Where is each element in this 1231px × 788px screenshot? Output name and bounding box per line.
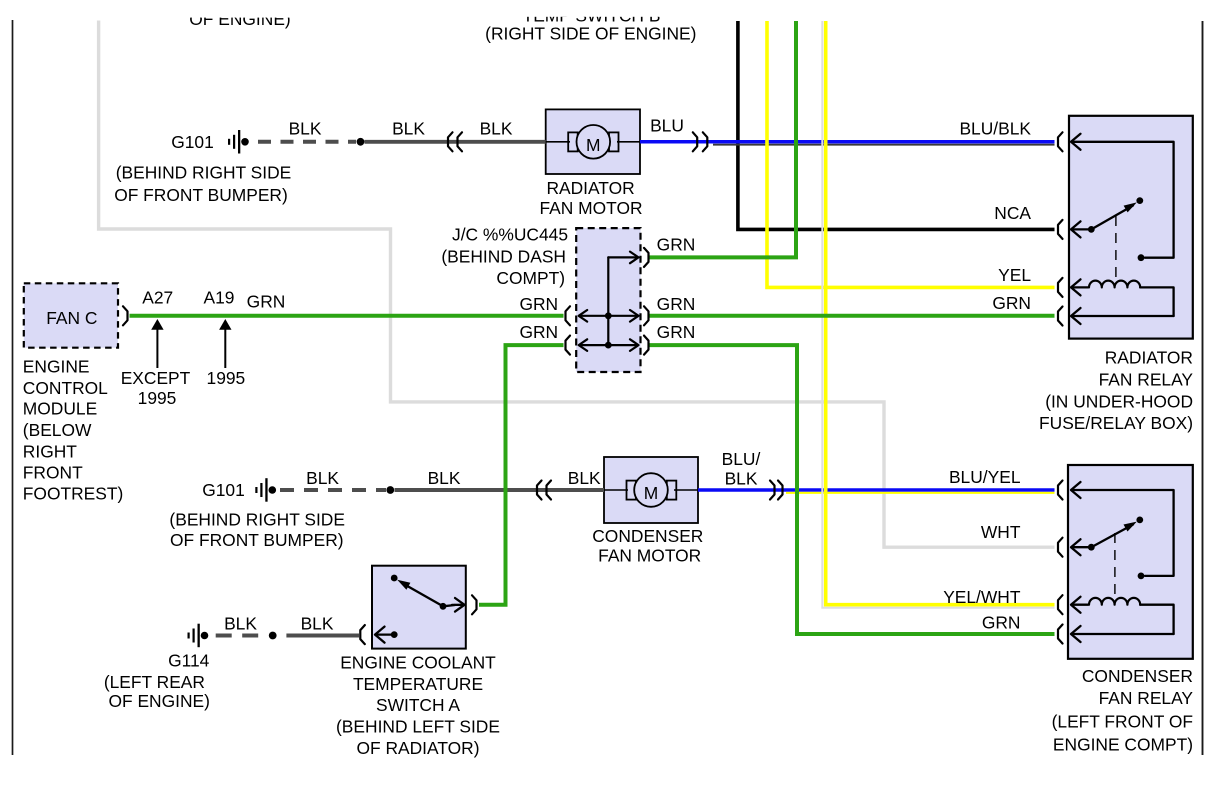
- wire BLU/BLK black stripe: [713, 144, 1055, 146]
- connector J/C top right: [644, 248, 649, 267]
- svg-text:CONTROL: CONTROL: [23, 378, 108, 398]
- svg-text:CONDENSER: CONDENSER: [1082, 666, 1193, 686]
- actuation dashed line: [1115, 216, 1117, 277]
- condenser relay internals: [1071, 482, 1174, 642]
- svg-text:FUSE/RELAY BOX): FUSE/RELAY BOX): [1039, 413, 1193, 433]
- engine coolant temperature switch A box: [372, 566, 466, 649]
- svg-text:G101: G101: [202, 480, 245, 500]
- pin2 arrow: [1071, 221, 1081, 237]
- connector radiator relay pin4: [1058, 307, 1063, 326]
- svg-text:1995: 1995: [207, 368, 246, 388]
- white clip band over top-middle text: [450, 0, 730, 17]
- svg-text:FAN MOTOR: FAN MOTOR: [539, 198, 642, 218]
- svg-text:BLK: BLK: [306, 468, 339, 488]
- wire NCA (black) from top to radiator fan relay pin 2: [738, 21, 1055, 229]
- connector radiator relay pin1: [1058, 132, 1063, 151]
- switch blade: [1091, 206, 1133, 230]
- connector condenser relay pin3: [1058, 595, 1063, 614]
- svg-text:(BEHIND RIGHT SIDE: (BEHIND RIGHT SIDE: [169, 510, 345, 530]
- junction connector J/C %%UC445 box (dashed): [576, 228, 640, 372]
- svg-text:(BEHIND RIGHT SIDE: (BEHIND RIGHT SIDE: [116, 163, 292, 183]
- pin3 arrow and coil: [1071, 597, 1081, 613]
- svg-text:TEMPERATURE: TEMPERATURE: [353, 674, 483, 694]
- svg-text:OF FRONT BUMPER): OF FRONT BUMPER): [170, 530, 344, 550]
- J/C internal arrows: [579, 252, 639, 351]
- connector J/C bottom right: [644, 336, 649, 355]
- svg-text:BLK: BLK: [392, 119, 425, 139]
- connector (( condenser motor BLK: [537, 481, 542, 500]
- svg-text:GRN: GRN: [982, 613, 1021, 633]
- condenser fan motor box: [604, 457, 698, 523]
- middle row arrows: [581, 315, 638, 317]
- svg-text:BLU/BLK: BLU/BLK: [959, 119, 1031, 139]
- arrow EXCEPT 1995 to A27: [151, 319, 163, 368]
- arrow 1995 to A19: [219, 319, 231, 368]
- wire BLK solid to coolant temperature switch A: [286, 634, 359, 638]
- svg-text:(IN UNDER-HOOD: (IN UNDER-HOOD: [1045, 391, 1193, 411]
- svg-text:M: M: [586, 135, 601, 155]
- svg-text:BLK: BLK: [725, 469, 758, 489]
- wire BLK solid to condenser fan motor: [395, 488, 605, 492]
- top output arrow: [608, 256, 637, 258]
- wire BLK dashed G101 to splice (row 1): [258, 140, 356, 144]
- splice dot row 1: [357, 138, 365, 146]
- svg-text:NCA: NCA: [994, 203, 1031, 223]
- connector )) radiator motor BLU: [693, 132, 697, 151]
- svg-text:M: M: [644, 483, 659, 503]
- svg-text:FOOTREST): FOOTREST): [23, 484, 123, 504]
- svg-text:(BEHIND DASH: (BEHIND DASH: [441, 246, 566, 266]
- ground pin arrow: [375, 627, 385, 643]
- actuation dashed line: [1114, 533, 1116, 594]
- ground G101 (condenser fan motor row): [255, 478, 276, 502]
- switch blade: [1091, 525, 1133, 548]
- svg-text:FAN RELAY: FAN RELAY: [1099, 688, 1194, 708]
- svg-text:BLK: BLK: [568, 468, 601, 488]
- ground G101 (radiator fan motor row): [228, 130, 249, 154]
- wire GRN ECM FAN C to J/C: [130, 314, 564, 318]
- svg-text:FRONT: FRONT: [23, 462, 83, 482]
- svg-text:BLK: BLK: [480, 119, 513, 139]
- svg-text:GRN: GRN: [657, 294, 696, 314]
- coolant temperature switch A internals: [375, 580, 465, 643]
- svg-text:OF FRONT BUMPER): OF FRONT BUMPER): [114, 185, 288, 205]
- output arrow to connector: [443, 605, 455, 606]
- connector condenser relay pin1: [1058, 481, 1063, 500]
- svg-text:ENGINE COOLANT: ENGINE COOLANT: [340, 653, 496, 673]
- connector at ECM FAN C output: [123, 306, 128, 325]
- radiator fan motor box: [546, 109, 640, 174]
- svg-text:OF RADIATOR): OF RADIATOR): [356, 738, 479, 758]
- svg-text:ENGINE: ENGINE: [23, 357, 90, 377]
- ground G114: [188, 624, 209, 648]
- svg-text:BLU/YEL: BLU/YEL: [949, 467, 1021, 487]
- splice dot G114 row: [269, 632, 277, 640]
- svg-text:BLU: BLU: [650, 116, 684, 136]
- svg-text:BLU/: BLU/: [722, 449, 761, 469]
- wire BLK dashed G114 to splice: [216, 634, 262, 638]
- svg-text:FAN C: FAN C: [46, 308, 97, 328]
- svg-text:YEL/WHT: YEL/WHT: [943, 587, 1021, 607]
- svg-text:G101: G101: [171, 132, 214, 152]
- svg-text:G114: G114: [168, 650, 210, 670]
- svg-text:MODULE: MODULE: [23, 399, 97, 419]
- svg-text:(RIGHT SIDE OF ENGINE): (RIGHT SIDE OF ENGINE): [485, 24, 696, 44]
- connector switch A output: [472, 595, 477, 614]
- condenser fan relay box: [1068, 465, 1193, 659]
- svg-text:GRN: GRN: [657, 234, 696, 254]
- page border right: [1202, 21, 1204, 755]
- wire BLU/YEL yellow stripe: [786, 492, 1055, 494]
- connector J/C bottom left: [566, 336, 571, 355]
- svg-text:(LEFT REAR: (LEFT REAR: [104, 672, 205, 692]
- wire GRN coolant temperature switch A to J/C: [479, 345, 564, 605]
- wire BLK solid to radiator fan motor: [365, 140, 546, 144]
- svg-text:WHT: WHT: [981, 522, 1021, 542]
- wire YEL/WHT white stripe: [822, 21, 1054, 608]
- pin4 arrow and internal wire: [1071, 308, 1081, 324]
- pin3 arrow and coil: [1071, 279, 1081, 295]
- svg-text:FAN MOTOR: FAN MOTOR: [598, 546, 701, 566]
- svg-text:BLK: BLK: [224, 613, 257, 633]
- wire YEL from top to radiator fan relay pin 3: [767, 21, 1055, 287]
- connector switch A ground pin: [360, 625, 365, 644]
- J/C bus dots: [605, 312, 612, 319]
- svg-text:YEL: YEL: [998, 265, 1031, 285]
- pin1 arrow and internal wire: [1071, 482, 1081, 498]
- svg-text:A27: A27: [142, 288, 173, 308]
- svg-text:FAN RELAY: FAN RELAY: [1099, 370, 1194, 390]
- condenser fan motor symbol: [604, 473, 698, 507]
- svg-text:A19: A19: [204, 288, 235, 308]
- wire BLU condenser fan motor to connector: [698, 488, 1055, 492]
- svg-text:OF ENGINE): OF ENGINE): [108, 691, 209, 711]
- splice dot row 2: [386, 486, 394, 494]
- svg-text:J/C %%UC445: J/C %%UC445: [452, 225, 568, 245]
- svg-text:BLK: BLK: [428, 468, 461, 488]
- svg-text:GRN: GRN: [519, 322, 558, 342]
- wire YEL/WHT from top to condenser fan relay pin 3: [826, 21, 1055, 605]
- wire GRN J/C top output going up: [648, 21, 796, 257]
- svg-text:BLK: BLK: [289, 119, 322, 139]
- svg-text:RIGHT: RIGHT: [23, 441, 77, 461]
- svg-text:RADIATOR: RADIATOR: [1105, 348, 1193, 368]
- pin4 arrow and internal wire: [1071, 626, 1081, 642]
- radiator fan motor symbol: [546, 125, 640, 159]
- svg-text:(BELOW: (BELOW: [23, 420, 92, 440]
- wire GRN J/C to radiator fan relay pin 4: [648, 314, 1055, 318]
- connector radiator relay pin3: [1058, 278, 1063, 297]
- svg-text:GRN: GRN: [992, 293, 1031, 313]
- svg-text:(LEFT FRONT OF: (LEFT FRONT OF: [1052, 711, 1193, 731]
- condenser relay contact dots: [1088, 544, 1095, 551]
- switch blade with arrow: [406, 585, 443, 606]
- radiator relay internals: [1071, 134, 1174, 324]
- svg-text:EXCEPT: EXCEPT: [121, 368, 191, 388]
- svg-text:1995: 1995: [138, 388, 177, 408]
- wire WHT (grey) from above ECM to condenser fan relay pin WHT: [99, 21, 1055, 548]
- pin2 arrow: [1071, 539, 1081, 555]
- pin1 arrow and internal wire: [1071, 134, 1081, 150]
- wire BLK dashed G101 to splice (row 2): [280, 488, 386, 492]
- wire BLU radiator fan motor to connector: [640, 140, 1055, 144]
- wire GRN J/C bottom output to condenser fan relay pin 4: [648, 345, 1055, 634]
- svg-text:GRN: GRN: [247, 292, 286, 312]
- connector radiator relay pin2: [1058, 220, 1063, 239]
- svg-text:RADIATOR: RADIATOR: [546, 178, 634, 198]
- bottom row arrows: [581, 344, 638, 346]
- radiator fan relay box: [1069, 116, 1193, 339]
- svg-text:CONDENSER: CONDENSER: [592, 526, 703, 546]
- page border left: [12, 20, 14, 755]
- svg-text:SWITCH A: SWITCH A: [376, 695, 460, 715]
- white clip band over top-left text: [150, 0, 330, 18]
- connector )) condenser motor BLU: [770, 481, 775, 500]
- connector (( radiator motor BLK: [448, 132, 453, 151]
- ECM FAN C box (dashed): [24, 283, 118, 347]
- internal bus vertical: [607, 257, 609, 345]
- svg-text:GRN: GRN: [519, 294, 558, 314]
- switch A dots: [391, 575, 398, 582]
- connector J/C middle left: [566, 306, 571, 325]
- svg-text:BLK: BLK: [301, 613, 334, 633]
- svg-text:ENGINE COMPT): ENGINE COMPT): [1053, 735, 1193, 755]
- svg-text:COMPT): COMPT): [496, 268, 565, 288]
- connector J/C middle right: [644, 306, 649, 325]
- connector condenser relay pin4: [1058, 625, 1063, 644]
- connector condenser relay pin2: [1058, 538, 1063, 557]
- svg-text:(BEHIND LEFT SIDE: (BEHIND LEFT SIDE: [336, 717, 500, 737]
- radiator relay contact dots: [1088, 226, 1095, 233]
- svg-text:GRN: GRN: [657, 322, 696, 342]
